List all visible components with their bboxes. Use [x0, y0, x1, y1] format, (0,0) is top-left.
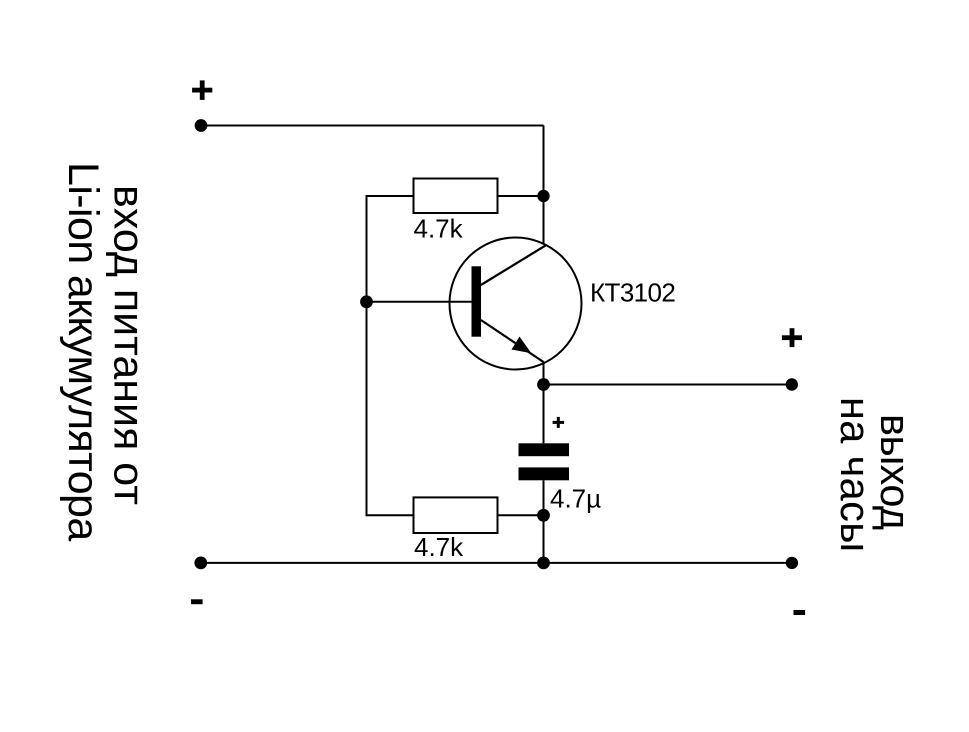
node output plus terminal — [786, 378, 798, 390]
resistor R1 4.7k — [414, 179, 498, 214]
wire junction to ground rail — [543, 515, 545, 563]
label minus output — [794, 610, 806, 615]
transistor Q1 KT3102 — [450, 238, 582, 370]
node base junction — [360, 295, 373, 308]
wire feedback left vertical — [366, 195, 368, 516]
label plus input — [192, 80, 212, 100]
svg-text:4.7µ: 4.7µ — [550, 483, 601, 513]
label capacitor plus polarity — [553, 417, 565, 428]
svg-text:КТ3102: КТ3102 — [590, 277, 675, 307]
svg-text:4.7k: 4.7k — [414, 214, 464, 244]
wire R1 left lead — [367, 195, 414, 197]
node ground mid junction — [537, 557, 550, 570]
wire capacitor top lead — [543, 385, 545, 444]
node input minus terminal — [194, 557, 207, 570]
wire top positive rail — [201, 125, 544, 127]
wire R1 right lead — [498, 195, 544, 197]
wire emitter to output node — [543, 362, 545, 385]
capacitor C1 top plate — [519, 443, 570, 456]
node input plus terminal — [195, 119, 208, 132]
node capacitor R2 junction — [537, 509, 550, 522]
resistor R2 4.7k — [414, 497, 498, 533]
capacitor C1 bottom plate — [519, 467, 570, 480]
wire base lead — [367, 301, 473, 303]
wire R2 left lead — [367, 514, 414, 516]
svg-text:4.7k: 4.7k — [414, 532, 464, 562]
label minus input — [191, 599, 203, 604]
wire output plus rail — [544, 384, 792, 386]
wire collector drop from rail — [543, 126, 545, 245]
node R1 collector junction — [537, 190, 549, 202]
node emitter output junction — [537, 378, 550, 391]
svg-text:на часы: на часы — [832, 397, 879, 552]
wire R2 right lead — [498, 514, 544, 516]
wire ground rail — [201, 562, 792, 564]
label plus output — [782, 328, 802, 347]
svg-text:вход питания от: вход питания от — [105, 185, 153, 505]
wire capacitor bottom lead — [543, 480, 545, 515]
svg-text:Li-ion аккумулятора: Li-ion аккумулятора — [59, 162, 107, 541]
node output minus terminal — [786, 557, 798, 569]
